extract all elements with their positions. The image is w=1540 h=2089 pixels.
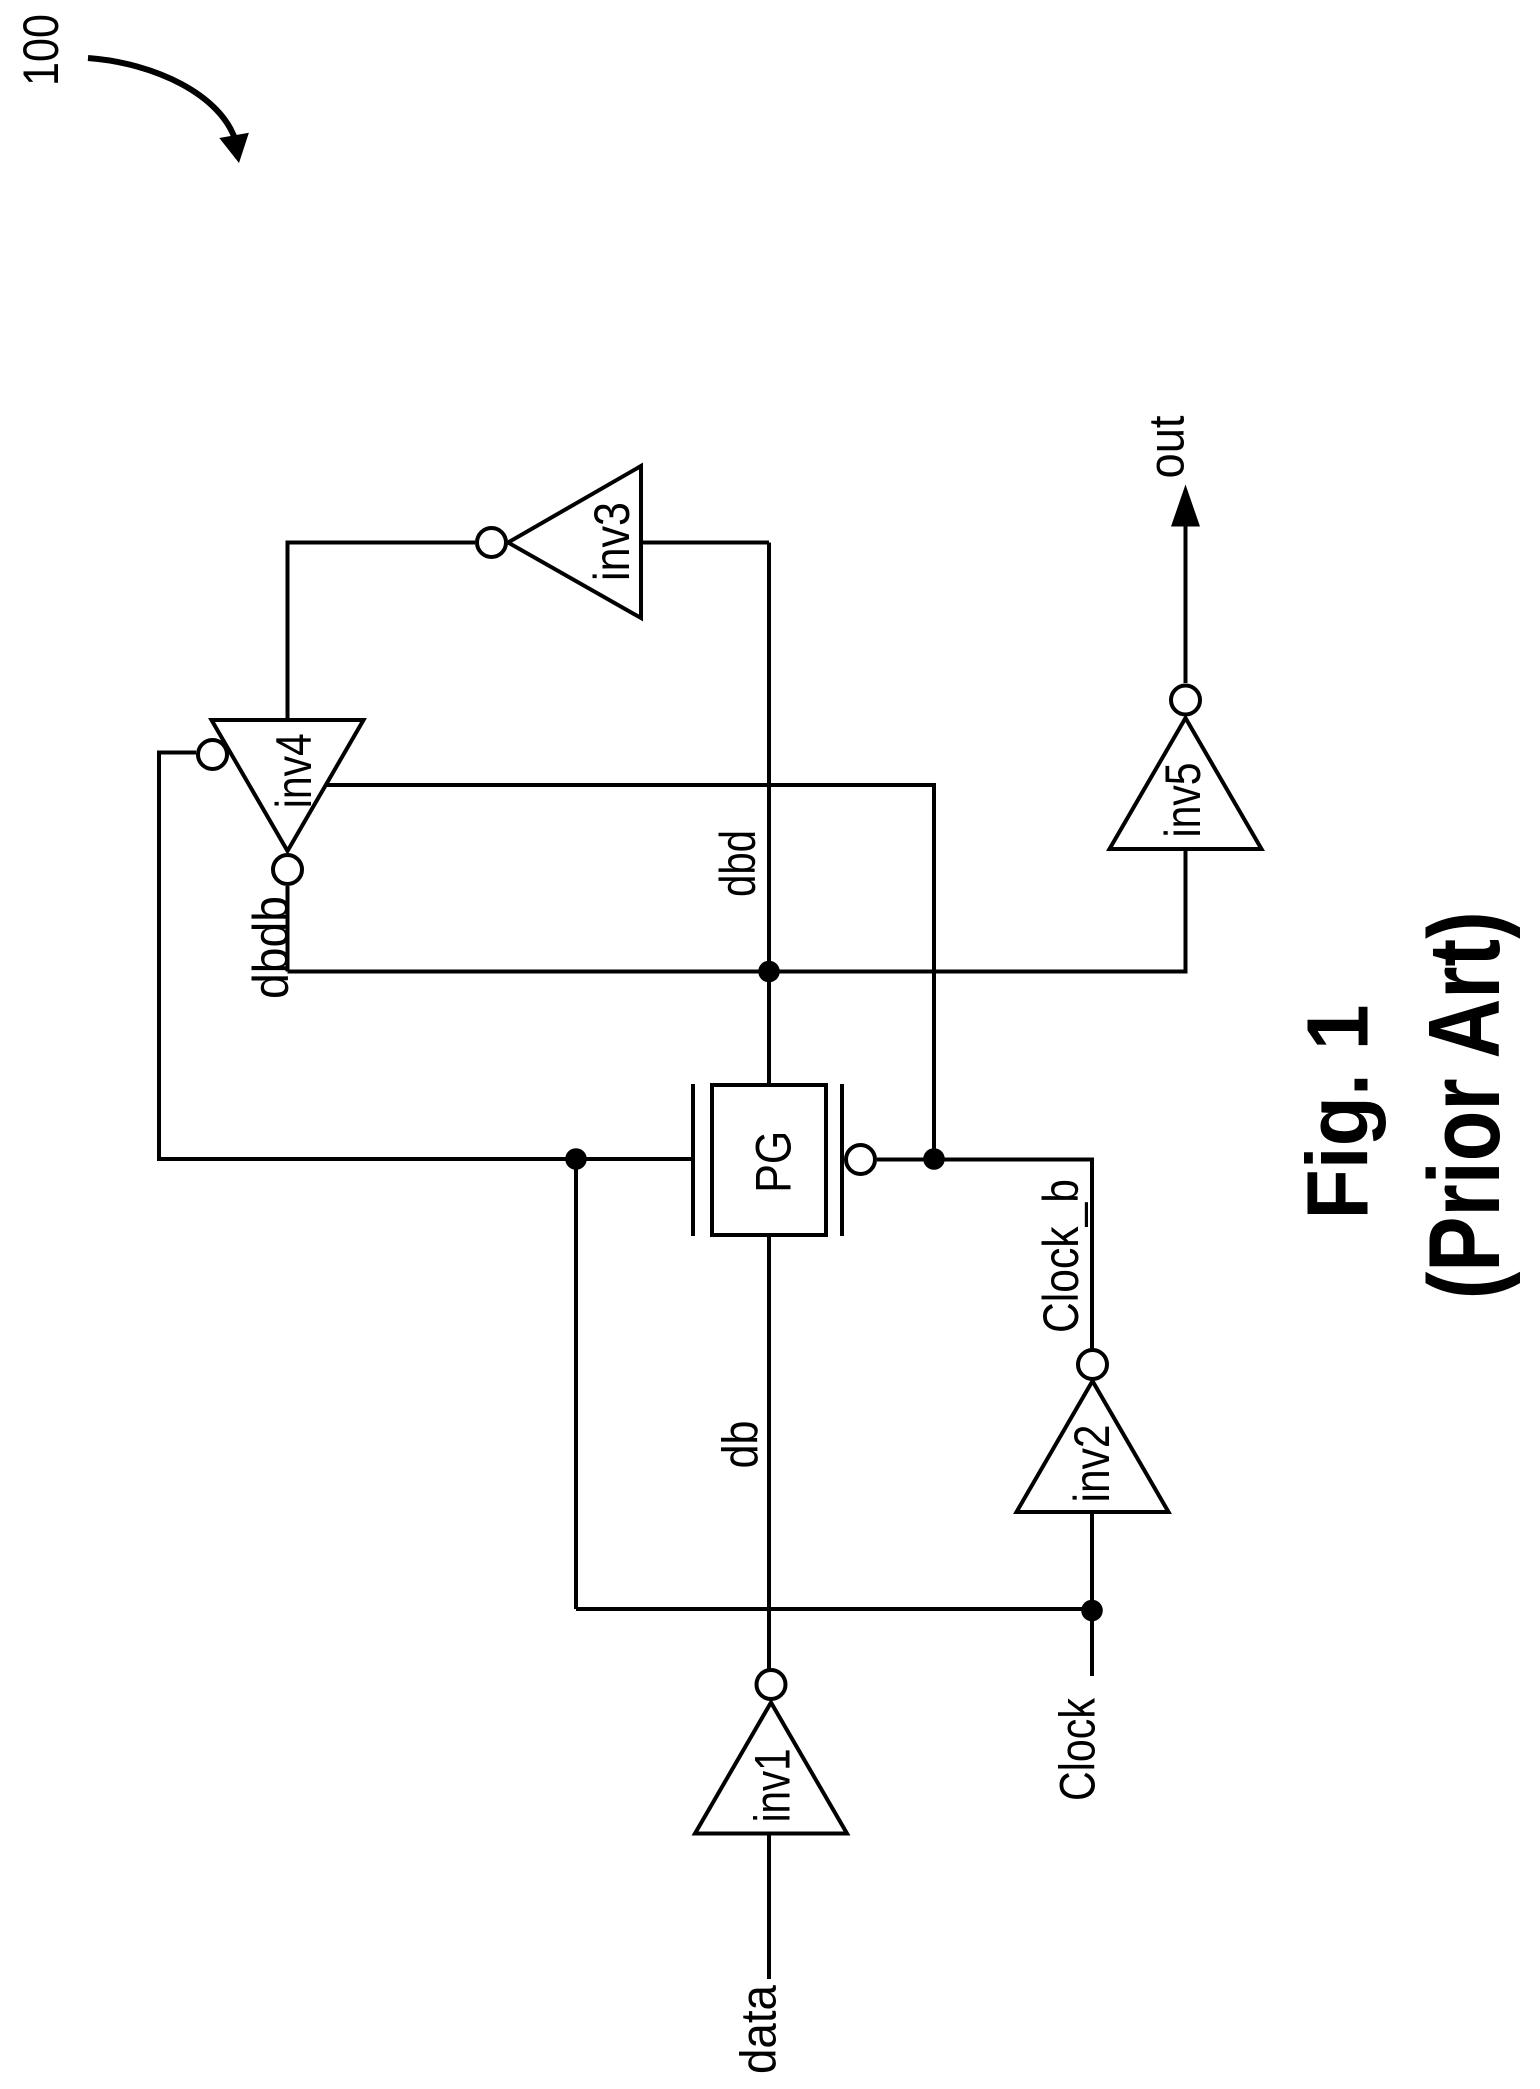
svg-text:(Prior Art): (Prior Art) [1409, 911, 1521, 1299]
bubble PG gate right [846, 1145, 875, 1174]
bubble inv4 enable_b [198, 740, 227, 769]
transistor PG (pass gate body) [712, 1085, 826, 1235]
wire inv4 enable (right edge) to Clock_b net [326, 785, 934, 1159]
inverter inv2 [1017, 1381, 1169, 1512]
wire data input [767, 1834, 771, 1980]
node junction Clock [1081, 1600, 1103, 1622]
inverter inv5 [1110, 718, 1262, 849]
wire Clock stub [1090, 1609, 1094, 1676]
svg-text:Fig. 1: Fig. 1 [1290, 1005, 1387, 1220]
wire PG gate left to clock horizontal [877, 1160, 1092, 1350]
bubble inv3 output [477, 528, 506, 557]
wire inv3 input from node dbd [641, 541, 769, 545]
svg-text:out: out [1139, 415, 1195, 478]
bubble inv2 output [1078, 1350, 1107, 1379]
node junction Clock at PG left [565, 1148, 587, 1170]
wire (curved leader arrow from label 100) [88, 58, 236, 142]
wire db (PG bottom to inv1 output bubble) [767, 1235, 771, 1670]
inverter inv3 [508, 466, 641, 618]
wire junction down to Clock line [574, 1159, 578, 1609]
wire inv3 output to inv4 input [288, 543, 476, 721]
inverter inv4 [212, 720, 364, 851]
svg-text:inv5: inv5 [1155, 763, 1211, 838]
svg-text:100: 100 [13, 14, 69, 86]
wire inv4 enable_b to Clock net [159, 753, 693, 1160]
node junction Clock_b [923, 1148, 945, 1170]
pin PG gate bar left (Clock) [691, 1084, 695, 1236]
node out arrowhead [1171, 485, 1200, 527]
svg-text:dbd: dbd [710, 830, 766, 897]
svg-text:inv4: inv4 [266, 733, 322, 808]
svg-text:data: data [731, 1985, 787, 2074]
svg-text:dbdb: dbdb [243, 896, 299, 999]
bubble inv1 output [757, 1670, 786, 1699]
wire dbd bus to inv5 input [288, 849, 1186, 972]
svg-text:PG: PG [746, 1131, 802, 1193]
svg-text:inv3: inv3 [584, 502, 640, 581]
svg-text:Clock_b: Clock_b [1033, 1179, 1089, 1333]
svg-text:Clock: Clock [1050, 1697, 1106, 1801]
wire dbdb (inv4 output down to bus) [286, 886, 290, 972]
wire Clock horizontal [576, 1607, 1092, 1611]
wire dbd vertical (inv3 input corner down to PG top) [767, 543, 771, 1086]
pin PG gate bar right (Clock_b) [840, 1084, 844, 1236]
bubble inv4 output [273, 855, 302, 884]
svg-text:db: db [713, 1421, 769, 1469]
svg-text:inv1: inv1 [745, 1748, 801, 1822]
svg-text:inv2: inv2 [1064, 1425, 1120, 1503]
bubble inv5 output [1171, 686, 1200, 715]
wire inv2 input to Clock junction [1090, 1512, 1094, 1609]
inverter inv1 [695, 1703, 847, 1834]
wire out (inv5 output to arrow) [1184, 526, 1188, 683]
node junction dbd on bus [758, 961, 780, 983]
